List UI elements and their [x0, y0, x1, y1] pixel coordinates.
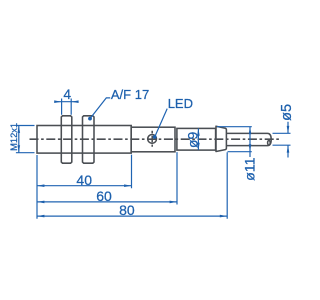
svg-text:M12x1: M12x1 — [9, 123, 19, 151]
svg-text:60: 60 — [96, 188, 112, 204]
svg-text:A/F 17: A/F 17 — [111, 87, 149, 102]
svg-text:40: 40 — [76, 172, 92, 188]
svg-text:80: 80 — [119, 202, 135, 218]
svg-text:ø11: ø11 — [243, 157, 259, 181]
svg-text:ø5: ø5 — [279, 104, 295, 121]
svg-text:4: 4 — [63, 87, 71, 102]
svg-text:LED: LED — [168, 96, 193, 111]
svg-text:ø9: ø9 — [184, 132, 200, 148]
